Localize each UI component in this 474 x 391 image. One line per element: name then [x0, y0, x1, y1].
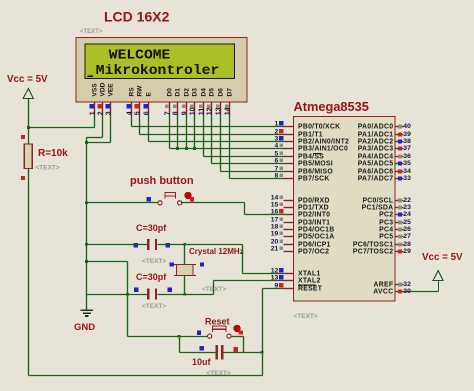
svg-text:PC4: PC4 — [379, 226, 393, 233]
svg-text:12: 12 — [271, 268, 279, 275]
svg-text:13: 13 — [215, 107, 222, 115]
svg-text:5: 5 — [275, 151, 279, 158]
wire XTAL1 net to pin 12 — [243, 273, 284, 275]
U1 pin 2 PB1/T1 — [275, 129, 323, 139]
U1 pin 15 PD1/TXD — [271, 202, 329, 212]
wire RS drop — [131, 115, 133, 127]
U1 pin 33 PA7/ADC7 — [358, 175, 411, 182]
svg-text:PC1/SDA: PC1/SDA — [362, 204, 394, 211]
svg-text:Crystal 12MHz: Crystal 12MHz — [189, 247, 244, 256]
U1 pin 28 PC6/TOSC1 — [353, 241, 411, 248]
U1 pin 12 XTAL1 — [271, 268, 321, 278]
wire reset button right — [232, 336, 244, 338]
wire D7 to pin 8 — [230, 178, 284, 180]
wire VSS drop — [94, 115, 96, 128]
wire E drop — [148, 115, 150, 142]
svg-text:AVCC: AVCC — [373, 288, 393, 295]
svg-text:PA0/ADC0: PA0/ADC0 — [358, 123, 394, 130]
svg-text:10uf: 10uf — [192, 357, 212, 367]
svg-text:2: 2 — [275, 129, 279, 136]
wire C3 left lead — [180, 352, 216, 354]
U1 pin 7 PB6/MISO — [275, 166, 334, 176]
wire VDD drop — [102, 115, 104, 138]
svg-text:GND: GND — [74, 322, 95, 333]
svg-text:16: 16 — [271, 209, 279, 216]
junction gnd branch — [85, 260, 88, 263]
svg-text:RS: RS — [129, 87, 136, 97]
svg-text:PC0/SCL: PC0/SCL — [362, 197, 393, 204]
wire D5 to pin 6 — [212, 163, 284, 165]
wire VDD to gnd column — [87, 137, 103, 139]
wire D5 drop — [211, 115, 213, 164]
svg-text:PD4/OC1B: PD4/OC1B — [298, 226, 334, 233]
svg-text:32: 32 — [403, 281, 411, 288]
wire D6 to pin 7 — [221, 171, 284, 173]
svg-text:D7: D7 — [227, 88, 234, 97]
U1 pin 1 PB0/T0/XCK — [275, 121, 341, 131]
capacitor C1 30pf — [134, 239, 170, 250]
junction D2 row4 — [185, 147, 188, 150]
svg-text:6: 6 — [143, 111, 150, 115]
svg-text:LCD 16X2: LCD 16X2 — [104, 9, 170, 25]
junction gnd-push button — [85, 201, 88, 204]
U1 pin 8 PB7/SCK — [275, 173, 330, 183]
svg-text:3: 3 — [275, 136, 279, 143]
svg-text:<TEXT>: <TEXT> — [202, 286, 226, 293]
svg-text:VDD: VDD — [100, 82, 107, 96]
svg-text:PD0/RXD: PD0/RXD — [298, 197, 330, 204]
LCD screen text WELCOME Mikrokontroler — [88, 47, 220, 78]
wire reset block left vertical — [179, 337, 181, 353]
svg-text:11: 11 — [198, 108, 205, 116]
LCD module LCD1 body — [76, 38, 247, 103]
U1 pin 9 RESET — [275, 283, 323, 293]
wire Vcc to AVCC pin 30 — [404, 291, 439, 293]
U1 pin 23 PC1/SDA — [362, 204, 411, 211]
junction gnd-C1 — [85, 243, 88, 246]
svg-text:18: 18 — [271, 224, 279, 231]
svg-text:14: 14 — [271, 195, 279, 202]
svg-text:15: 15 — [271, 202, 279, 209]
wire XTAL1 net vertical — [242, 245, 244, 274]
wire D1 drop — [177, 115, 179, 149]
junction reset block left — [178, 335, 181, 338]
LCD pin 4 RS — [126, 87, 135, 116]
svg-text:PA2/ADC2: PA2/ADC2 — [358, 138, 394, 145]
U1 pin 40 PA0/ADC0 — [358, 123, 411, 130]
U1 pin 34 PA6/ADC6 — [358, 168, 411, 175]
svg-text:PB3/AIN1/OC0: PB3/AIN1/OC0 — [298, 145, 348, 152]
U1 pin 19 PD5/OC1A — [271, 231, 335, 241]
wire VEE to gnd column — [87, 142, 111, 144]
svg-text:PB0/T0/XCK: PB0/T0/XCK — [298, 123, 340, 130]
svg-text:30: 30 — [403, 288, 411, 295]
crystal X1 12MHz — [170, 262, 205, 275]
svg-text:22: 22 — [403, 197, 411, 204]
U1 pin 35 PA5/ADC5 — [358, 160, 411, 167]
svg-text:RESET: RESET — [298, 285, 323, 292]
svg-text:D6: D6 — [218, 88, 225, 97]
svg-text:<TEXT>: <TEXT> — [294, 313, 318, 320]
LCD pin 13 D6 — [215, 88, 224, 116]
wire XTAL2 net vertical — [213, 281, 215, 295]
svg-text:29: 29 — [403, 248, 411, 255]
svg-text:D1: D1 — [175, 88, 182, 97]
svg-text:3: 3 — [105, 111, 112, 115]
svg-text:PD6/ICP1: PD6/ICP1 — [298, 241, 331, 248]
wire D3 drop — [194, 115, 196, 149]
ground symbol — [81, 310, 93, 316]
LCD pin 12 D5 — [206, 88, 215, 116]
svg-text:24: 24 — [403, 211, 411, 218]
marker R1 bottom pin — [21, 176, 25, 180]
wire RW drop — [139, 115, 141, 135]
svg-text:D3: D3 — [192, 88, 199, 97]
svg-text:Mikrokontroler: Mikrokontroler — [96, 63, 220, 79]
svg-text:D0: D0 — [167, 88, 174, 97]
wire push button corner down — [244, 203, 246, 215]
LCD pin 6 E — [143, 92, 152, 116]
capacitor C2 30pf — [134, 288, 172, 300]
svg-text:5: 5 — [134, 111, 141, 115]
svg-text:PD1/TXD: PD1/TXD — [298, 204, 329, 211]
svg-text:VEE: VEE — [108, 83, 115, 97]
svg-text:40: 40 — [403, 123, 411, 130]
wire D6 drop — [220, 115, 222, 172]
wire crystal bottom lead — [184, 276, 186, 295]
U1 pin 14 PD0/RXD — [271, 195, 330, 205]
wire XTAL2 net to pin 13 — [214, 280, 284, 282]
svg-text:PA3/ADC3: PA3/ADC3 — [358, 145, 394, 152]
svg-text:PB6/MISO: PB6/MISO — [298, 168, 333, 175]
LCD pin 8 D1 — [172, 88, 181, 116]
svg-text:PC6/TOSC1: PC6/TOSC1 — [353, 241, 393, 248]
microcontroller U1 Atmega8535 body — [294, 117, 396, 302]
svg-text:PC2: PC2 — [379, 211, 393, 218]
svg-text:Vcc = 5V: Vcc = 5V — [7, 74, 48, 85]
svg-text:1: 1 — [89, 111, 96, 115]
svg-text:D2: D2 — [184, 88, 191, 97]
svg-text:8: 8 — [275, 173, 279, 180]
svg-text:37: 37 — [403, 145, 411, 152]
svg-text:39: 39 — [403, 131, 411, 138]
svg-text:4: 4 — [126, 111, 133, 115]
svg-text:28: 28 — [403, 241, 411, 248]
svg-text:17: 17 — [271, 217, 279, 224]
power terminal Vcc right arrow — [433, 271, 443, 292]
capacitor C3 10uf — [200, 345, 239, 360]
wire D4 drop — [203, 115, 205, 157]
U1 pin 36 PA4/ADC4 — [358, 153, 411, 160]
svg-text:D4: D4 — [201, 88, 208, 97]
svg-text:PD7/OC2: PD7/OC2 — [298, 248, 329, 255]
svg-text:Reset: Reset — [205, 317, 230, 327]
wire C3 right lead — [224, 352, 263, 354]
U1 pin 25 PC3 — [379, 219, 411, 226]
svg-text:26: 26 — [403, 226, 411, 233]
U1 pin 21 PD7/OC2 — [271, 246, 330, 256]
svg-text:PC5: PC5 — [379, 233, 393, 240]
U1 pin 37 PA3/ADC3 — [358, 145, 411, 152]
svg-text:38: 38 — [403, 138, 411, 145]
svg-text:E: E — [146, 92, 153, 97]
U1 pin 5 PB4/SS — [275, 151, 325, 161]
wire gnd to C2 left — [87, 294, 148, 296]
svg-text:PA1/ADC1: PA1/ADC1 — [358, 131, 394, 138]
svg-text:35: 35 — [403, 160, 411, 167]
svg-text:14: 14 — [224, 107, 231, 115]
U1 pin 27 PC5 — [379, 233, 411, 240]
svg-text:R=10k: R=10k — [38, 148, 68, 159]
LCD pin 7 D0 — [164, 88, 173, 116]
svg-text:Atmega8535: Atmega8535 — [294, 99, 369, 114]
svg-text:PC3: PC3 — [379, 219, 393, 226]
svg-text:23: 23 — [403, 204, 411, 211]
svg-text:PD3/INT1: PD3/INT1 — [298, 219, 330, 226]
svg-text:PA6/ADC6: PA6/ADC6 — [358, 168, 394, 175]
wire reset net to RESET pin 9 — [263, 288, 284, 290]
svg-text:10: 10 — [189, 107, 196, 115]
svg-text:AREF: AREF — [374, 281, 394, 288]
wire D4 to pin 5 — [204, 156, 284, 158]
U1 pin 26 PC4 — [379, 226, 411, 233]
svg-text:9: 9 — [181, 111, 188, 115]
wire gnd to push button — [87, 202, 158, 204]
svg-text:27: 27 — [403, 233, 411, 240]
svg-text:<TEXT>: <TEXT> — [142, 303, 166, 310]
U1 pin 22 PC0/SCL — [362, 197, 411, 204]
wire push button to pin 16 — [245, 214, 284, 216]
svg-text:PB2/AIN0/INT2: PB2/AIN0/INT2 — [298, 138, 349, 145]
wire C2 right run — [158, 294, 214, 296]
junction VSS-rail — [27, 126, 30, 129]
svg-text:PD2/INT0: PD2/INT0 — [298, 211, 330, 218]
U1 pin 17 PD3/INT1 — [271, 217, 331, 227]
wire bottom rail — [29, 375, 263, 377]
wire RS to pin 1 — [132, 126, 284, 128]
svg-text:6: 6 — [275, 158, 279, 165]
U1 pin 20 PD6/ICP1 — [271, 239, 331, 249]
svg-text:2: 2 — [97, 111, 104, 115]
junction D1 row4 — [176, 147, 179, 150]
wire D0-D3 run to pin 4 — [170, 148, 284, 150]
svg-text:25: 25 — [403, 219, 411, 226]
junction C3 reset net — [261, 351, 264, 354]
svg-text:PB1/T1: PB1/T1 — [298, 131, 323, 138]
svg-text:<TEXT>: <TEXT> — [80, 29, 103, 35]
svg-text:7: 7 — [275, 166, 279, 173]
svg-text:PB7/SCK: PB7/SCK — [298, 175, 330, 182]
svg-text:36: 36 — [403, 153, 411, 160]
wire gnd to C1 left — [87, 244, 148, 246]
U1 pin 4 PB3/AIN1/OC0 — [275, 143, 349, 153]
svg-text:C=30pf: C=30pf — [136, 223, 167, 233]
wire Vcc rail to R1 top — [28, 99, 30, 145]
U1 pin 16 PD2/INT0 — [271, 209, 331, 219]
svg-text:1: 1 — [275, 121, 279, 128]
wire RW to pin 2 — [140, 134, 284, 136]
svg-text:13: 13 — [271, 275, 279, 282]
U1 pin 39 PA1/ADC1 — [358, 131, 411, 138]
svg-text:XTAL2: XTAL2 — [298, 277, 321, 284]
wire reset block right vertical — [243, 337, 245, 353]
U1 pin 29 PC7/TOSC2 — [353, 248, 411, 255]
svg-text:<TEXT>: <TEXT> — [36, 165, 60, 172]
push button SW1 — [147, 192, 195, 205]
wire VEE drop — [110, 115, 112, 143]
U1 pin 32 AREF — [374, 281, 412, 288]
U1 pin 30 AVCC — [373, 288, 411, 295]
svg-text:33: 33 — [403, 175, 411, 182]
U1 pin 13 XTAL2 — [271, 275, 321, 285]
svg-text:PA4/ADC4: PA4/ADC4 — [358, 153, 394, 160]
LCD pin 5 RW — [134, 85, 143, 115]
power terminal Vcc left arrow — [23, 89, 33, 99]
svg-text:Vcc = 5V: Vcc = 5V — [422, 252, 463, 263]
wire E to pin 3 — [149, 141, 284, 143]
push button SW2 Reset — [197, 325, 243, 338]
wire VSS to rail — [29, 127, 95, 129]
svg-text:20: 20 — [271, 239, 279, 246]
svg-text:PC7/TOSC2: PC7/TOSC2 — [353, 248, 393, 255]
LCD pin 10 D3 — [189, 88, 198, 116]
U1 pin 24 PC2 — [379, 211, 411, 218]
svg-text:4: 4 — [275, 143, 279, 150]
svg-text:<TEXT>: <TEXT> — [142, 258, 166, 265]
svg-text:21: 21 — [271, 246, 279, 253]
LCD pin 11 D4 — [198, 88, 207, 116]
junction D3 row4 — [193, 147, 196, 150]
svg-text:8: 8 — [172, 111, 179, 115]
svg-text:9: 9 — [275, 283, 279, 290]
U1 pin 3 PB2/AIN0/INT2 — [275, 136, 350, 146]
junction VEE gnd column — [85, 141, 88, 144]
svg-text:WELCOME: WELCOME — [109, 47, 171, 63]
LCD pin 3 VEE — [105, 83, 114, 116]
marker R1 top pin — [21, 135, 25, 139]
U1 pin 6 PB5/MOSI — [275, 158, 333, 168]
svg-text:C=30pf: C=30pf — [136, 272, 167, 282]
svg-text:12: 12 — [206, 107, 213, 115]
svg-text:VSS: VSS — [92, 83, 99, 97]
junction C2 gnd branch — [126, 293, 129, 296]
wire R1 bottom down left rail — [28, 169, 30, 376]
svg-text:7: 7 — [164, 111, 171, 115]
svg-text:RW: RW — [137, 85, 144, 97]
svg-text:push button: push button — [130, 175, 194, 187]
svg-text:PD5/OC1A: PD5/OC1A — [298, 233, 334, 240]
wire crystal top lead — [184, 245, 186, 265]
resistor R1 — [24, 144, 32, 169]
svg-text:PB5/MOSI: PB5/MOSI — [298, 160, 333, 167]
junction crystal top — [183, 243, 186, 246]
svg-text:19: 19 — [271, 231, 279, 238]
wire push button to corner — [182, 202, 245, 204]
wire gnd column — [86, 138, 88, 310]
LCD pin 1 VSS — [89, 83, 98, 116]
junction crystal bottom — [183, 293, 186, 296]
svg-text:PB4/SS: PB4/SS — [298, 153, 324, 160]
wire gnd branch vertical — [127, 262, 129, 337]
LCD pin 14 D7 — [224, 88, 233, 116]
wire D7 drop — [229, 115, 231, 179]
U1 pin 38 PA2/ADC2 — [358, 138, 411, 145]
U1 pin 18 PD4/OC1B — [271, 224, 335, 234]
LCD pin 2 VDD — [97, 82, 106, 115]
wire gnd to reset button — [128, 336, 208, 338]
svg-text:34: 34 — [403, 168, 411, 175]
wire C1 right run — [158, 244, 243, 246]
svg-text:D5: D5 — [209, 88, 216, 97]
svg-text:PA5/ADC5: PA5/ADC5 — [358, 160, 394, 167]
wire reset net vertical — [262, 289, 264, 376]
svg-text:XTAL1: XTAL1 — [298, 270, 321, 277]
svg-text:PA7/ADC7: PA7/ADC7 — [358, 175, 394, 182]
wire gnd branch horizontal — [87, 261, 128, 263]
LCD pin 9 D2 — [181, 88, 190, 116]
wire D0 drop — [169, 115, 171, 149]
wire D2 drop — [186, 115, 188, 149]
